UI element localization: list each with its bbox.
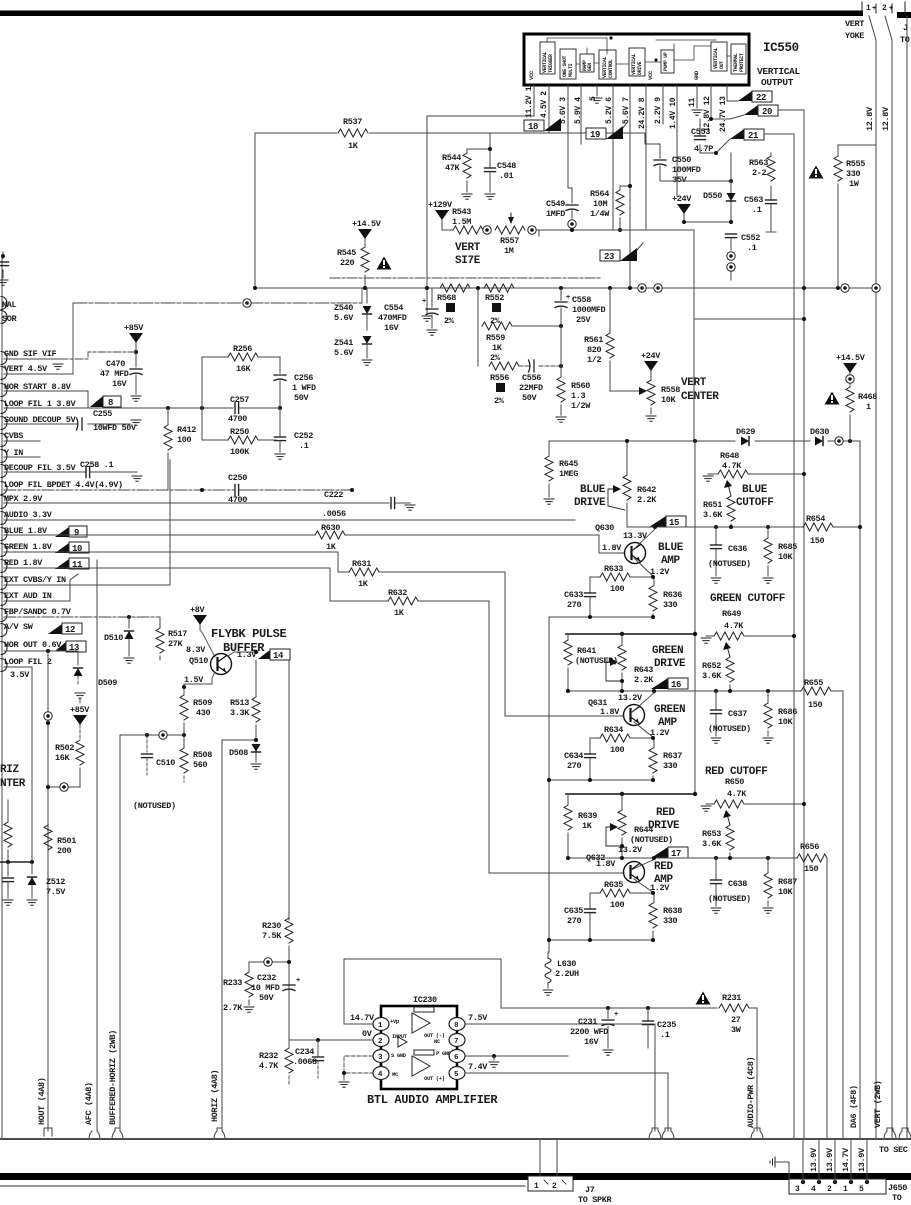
IC230 pin 6	[449, 1050, 465, 1063]
svg-text:5: 5	[859, 1185, 864, 1194]
svg-text:3: 3	[795, 1185, 800, 1194]
wire Q510 emitter to R509	[184, 672, 215, 695]
svg-text:OUT (+): OUT (+)	[424, 1075, 445, 1082]
svg-text:C563: C563	[744, 195, 763, 205]
svg-text:1 WFD: 1 WFD	[292, 383, 316, 393]
wire y230 cluster	[539, 229, 646, 231]
emitter wire Q631	[634, 722, 654, 748]
svg-text:10K: 10K	[661, 395, 677, 405]
svg-text:1000MFD: 1000MFD	[572, 305, 606, 315]
svg-text:R687: R687	[778, 877, 797, 887]
pin CVBS	[1, 434, 7, 447]
svg-text:+: +	[422, 298, 426, 306]
svg-text:330: 330	[846, 169, 861, 179]
svg-text:2%: 2%	[494, 396, 505, 406]
svg-text:Z512: Z512	[46, 877, 65, 887]
svg-text:GND: GND	[693, 70, 700, 80]
svg-text:7: 7	[454, 1038, 458, 1046]
resistor R556 2%	[477, 326, 479, 366]
svg-text:150: 150	[810, 536, 825, 546]
svg-text:R563: R563	[749, 158, 768, 168]
wiper arrow R649	[727, 646, 730, 657]
capacitor C470 47 MFD 16V	[130, 369, 142, 375]
svg-text:C255: C255	[93, 409, 112, 419]
svg-text:RED: RED	[656, 807, 676, 819]
wire bus y303 left	[73, 302, 362, 304]
resistor R654 150	[803, 523, 833, 531]
svg-text:R639: R639	[578, 811, 597, 821]
svg-text:1MEG: 1MEG	[559, 469, 578, 479]
resistor R230 7.5K	[285, 918, 293, 943]
svg-text:R555: R555	[846, 159, 865, 169]
resistor R632 1K	[388, 597, 418, 605]
svg-text:2-2: 2-2	[752, 168, 767, 178]
resistor R233 2.7K	[248, 962, 250, 972]
pin BLUE 1.8V	[1, 528, 7, 541]
capacitor C553	[699, 119, 701, 136]
svg-text:5.6V: 5.6V	[334, 348, 354, 358]
capacitor C554 470MFD 16V	[431, 288, 433, 307]
capacitor C635 270	[589, 893, 591, 908]
svg-text:C234: C234	[295, 1047, 314, 1057]
svg-text:12: 12	[65, 625, 75, 635]
svg-text:R250: R250	[230, 427, 249, 437]
svg-text:100: 100	[610, 745, 625, 755]
resistor R649 4.7K pot	[701, 638, 711, 643]
wire R631 to x505 down to green base	[379, 572, 624, 716]
IC230 supply loop wire	[344, 959, 501, 1024]
svg-text:+129V: +129V	[428, 200, 453, 210]
svg-text:D629: D629	[736, 427, 755, 437]
J650 ground bracket	[775, 1162, 789, 1179]
pin A/V SW	[1, 624, 7, 637]
pin DECOUP FIL 3.5V	[1, 465, 7, 478]
svg-text:1.5M: 1.5M	[452, 217, 471, 227]
capacitor C637 (NOTUSED)	[715, 691, 717, 709]
capacitor C549 1MFD	[571, 196, 573, 203]
pin VERT 4.5V	[1, 367, 7, 380]
inductor L630 2.2UH	[547, 952, 549, 958]
resistor R633 100	[590, 576, 600, 578]
svg-text:1.8V: 1.8V	[602, 543, 622, 553]
pin AUDIO 3.3V	[1, 512, 7, 525]
wire pin2 input y1040	[289, 1039, 374, 1041]
flag 20	[744, 105, 758, 115]
svg-text:16V: 16V	[112, 379, 128, 389]
svg-text:TO: TO	[900, 35, 910, 45]
svg-text:330: 330	[663, 916, 678, 926]
svg-text:R636: R636	[663, 590, 682, 600]
svg-text:10 MFD: 10 MFD	[251, 983, 280, 993]
resistor R651 3.6K	[727, 496, 735, 521]
svg-text:RED: RED	[654, 861, 674, 873]
flag 11	[55, 559, 69, 569]
svg-text:VCC: VCC	[528, 70, 535, 80]
pin RED 1.8V	[1, 560, 7, 573]
svg-text:21: 21	[748, 131, 759, 141]
capacitor C558 1000MFD 25V	[560, 288, 562, 300]
svg-text:R637: R637	[663, 751, 682, 761]
diode D550	[730, 181, 732, 222]
pin HOR START 8.8V	[1, 384, 7, 397]
pin LOOP FIL BPDET	[1, 482, 7, 495]
svg-text:2200 WFD: 2200 WFD	[570, 1027, 608, 1037]
wire R632 to x489 down to red base	[418, 601, 624, 873]
vertical x48 hor out	[47, 651, 49, 1131]
flag 22	[738, 91, 752, 101]
svg-text:R630: R630	[321, 523, 340, 533]
svg-text:D508: D508	[229, 748, 248, 758]
wire 24V node	[684, 221, 731, 223]
svg-text:16: 16	[671, 680, 681, 690]
svg-text:R649: R649	[722, 609, 741, 619]
resistor R645 1MEG	[548, 441, 550, 456]
svg-text:R537: R537	[343, 117, 362, 127]
svg-text:18: 18	[528, 122, 538, 132]
svg-text:13.9V: 13.9V	[857, 1147, 867, 1172]
svg-text:FLYBK PULSE: FLYBK PULSE	[211, 627, 287, 641]
svg-text:2.2K: 2.2K	[637, 495, 657, 505]
svg-text:(NOTUSED): (NOTUSED)	[133, 801, 176, 811]
flag 18	[524, 120, 544, 131]
svg-text:R648: R648	[720, 451, 739, 461]
svg-text:DRIVE: DRIVE	[654, 658, 686, 670]
svg-text:1W: 1W	[849, 179, 860, 189]
wire y1008 audio power	[501, 1007, 717, 1009]
capacitor C258 .1	[4, 471, 86, 473]
connector J ticks pins 1 2	[862, 2, 905, 14]
IC230 op-amp internals	[398, 1007, 434, 1076]
svg-text:IC550: IC550	[763, 41, 799, 55]
svg-text:D509: D509	[98, 678, 117, 688]
resistor R508 560	[183, 735, 185, 748]
svg-text:1/2: 1/2	[587, 355, 602, 365]
IC550 inner block VERTICAL OUT	[711, 42, 727, 71]
svg-text:R233: R233	[223, 978, 242, 988]
resistor left edge (horiz centering)	[7, 800, 9, 822]
svg-text:1.8V: 1.8V	[600, 707, 620, 717]
svg-text:4.5V 2: 4.5V 2	[540, 91, 549, 118]
resistor R648 4.7K pot	[703, 476, 713, 481]
right bus wire x=900	[906, 16, 908, 1139]
svg-text:16V: 16V	[384, 323, 400, 333]
svg-text:+: +	[614, 1011, 618, 1019]
svg-text:BLUE: BLUE	[742, 484, 768, 496]
svg-text:R513: R513	[230, 698, 249, 708]
left edge vertical	[1, 258, 3, 1139]
wire R502 bottom to x48	[48, 786, 80, 788]
transistor Q510	[211, 654, 232, 675]
wiper arrow R648	[728, 484, 731, 496]
svg-text:10M: 10M	[593, 199, 608, 209]
IC550 inner block VERTICAL DRIVE	[629, 48, 645, 76]
svg-text:EXT CVBS/Y IN: EXT CVBS/Y IN	[4, 575, 66, 585]
svg-text:C231: C231	[578, 1017, 597, 1027]
svg-text:+: +	[889, 5, 893, 13]
svg-text:3.5V: 3.5V	[10, 670, 30, 680]
svg-text:R556: R556	[490, 373, 509, 383]
svg-text:R517: R517	[168, 629, 187, 639]
svg-text:.1: .1	[299, 441, 309, 451]
svg-text:R635: R635	[604, 880, 623, 890]
wire red cutoff row y858	[568, 857, 797, 859]
svg-text:C633: C633	[564, 590, 583, 600]
svg-text:.01: .01	[499, 171, 514, 181]
bottom black bar	[0, 1173, 911, 1180]
capacitor C550 100MFD 35V	[659, 144, 661, 158]
svg-text:12.8V: 12.8V	[881, 106, 891, 131]
svg-text:R544: R544	[442, 153, 461, 163]
svg-text:2: 2	[552, 1182, 557, 1191]
svg-text:100: 100	[610, 900, 625, 910]
svg-text:35V: 35V	[672, 175, 688, 185]
zener Z512 7.5V	[31, 862, 33, 874]
pin HOR OUT 0.6V	[1, 642, 7, 655]
resistor R636 330	[649, 586, 657, 611]
svg-text:1K: 1K	[492, 343, 503, 353]
svg-text:220: 220	[340, 258, 355, 268]
flag 19	[586, 128, 606, 139]
svg-text:+24V: +24V	[672, 194, 692, 204]
svg-text:3.3K: 3.3K	[230, 708, 250, 718]
resistor R559 1K 2%	[477, 288, 479, 326]
svg-text:C634: C634	[564, 751, 583, 761]
wire Q510 collector to x289	[228, 652, 258, 656]
ground above +85V	[75, 693, 85, 698]
capacitor C255 10MFD 50V	[4, 423, 78, 425]
svg-text:27: 27	[731, 1015, 741, 1025]
svg-text:J650: J650	[888, 1183, 907, 1193]
svg-text:D510: D510	[104, 633, 123, 643]
capacitor C252 .1	[275, 437, 286, 441]
pot R558 10K with wiper arrow	[647, 380, 655, 405]
svg-text:DA6 (4F8): DA6 (4F8)	[849, 1085, 859, 1128]
wire vert yoke 1	[869, 16, 876, 284]
svg-text:R543: R543	[452, 207, 471, 217]
resistor R543 1.5M	[442, 229, 453, 231]
wire mpx y503	[4, 502, 389, 504]
svg-text:C232: C232	[257, 973, 276, 983]
resistor R652 3.6K	[726, 657, 734, 682]
resistor R631 1K	[349, 568, 379, 576]
warning triangle near R545	[377, 257, 392, 270]
svg-text:R643: R643	[634, 665, 653, 675]
pin5 gnd stub	[596, 85, 598, 96]
svg-text:CONTROL: CONTROL	[608, 59, 614, 78]
svg-text:(NOTUSED): (NOTUSED)	[708, 724, 751, 734]
svg-text:GND SIF VIF: GND SIF VIF	[4, 349, 57, 359]
svg-text:C638: C638	[728, 879, 747, 889]
svg-text:BUFFERED-HORIZ (2WB): BUFFERED-HORIZ (2WB)	[108, 1030, 118, 1125]
resistor R555 330 1W	[837, 145, 839, 156]
svg-text:C552: C552	[741, 233, 760, 243]
svg-text:13.2V: 13.2V	[618, 693, 643, 703]
flag 9	[55, 527, 69, 537]
IC550 inner wiring	[547, 38, 731, 64]
svg-text:NAL: NAL	[2, 300, 17, 310]
resistor R412 100	[167, 408, 169, 425]
svg-text:C558: C558	[572, 295, 591, 305]
svg-text:DRIVE: DRIVE	[574, 497, 606, 509]
flag 14	[258, 650, 270, 659]
green cutoff/collector row y691	[568, 690, 686, 692]
diode D509 on x78	[77, 651, 79, 665]
long vertical x427	[426, 116, 428, 313]
svg-text:.1: .1	[660, 1030, 670, 1040]
vertical x120	[119, 735, 121, 1131]
svg-text:R561: R561	[584, 335, 603, 345]
wire hor out y651	[4, 650, 78, 652]
resistor R502 16K	[76, 740, 84, 765]
pin SOR	[1, 311, 7, 324]
svg-text:R230: R230	[262, 921, 281, 931]
svg-text:RED 1.8V: RED 1.8V	[4, 558, 43, 568]
svg-text:2.2UH: 2.2UH	[555, 969, 579, 979]
pin LOOP FIL 2 3.5V	[1, 659, 7, 672]
svg-text:270: 270	[567, 600, 582, 610]
svg-text:R560: R560	[571, 381, 590, 391]
diode D630	[815, 437, 823, 446]
svg-text:GREEN CUTOFF: GREEN CUTOFF	[710, 593, 785, 605]
svg-text:C553: C553	[691, 127, 710, 137]
svg-text:R412: R412	[177, 425, 196, 435]
capacitor C231 2200 MFD 16V	[607, 1008, 609, 1018]
svg-text:C510: C510	[156, 758, 175, 768]
vertical x97	[96, 560, 98, 1131]
resistor R653 3.6K	[726, 825, 734, 850]
pin NAL	[1, 297, 7, 310]
wire blue emitter row y617	[549, 616, 653, 618]
resistor R563 2-2	[770, 153, 772, 156]
svg-text:10WFD 50V: 10WFD 50V	[93, 423, 137, 433]
capacitor C563 .1	[770, 186, 772, 199]
resistor R250 100K	[201, 408, 203, 440]
svg-text:R642: R642	[637, 485, 656, 495]
svg-text:GREEN: GREEN	[654, 704, 685, 716]
capacitor C548 .01	[485, 168, 496, 172]
svg-text:IC230: IC230	[413, 995, 437, 1005]
svg-text:2.2K: 2.2K	[634, 675, 654, 685]
pin GND SIF VIF	[1, 352, 7, 365]
wire R630 to Q630 base	[345, 535, 624, 553]
svg-text:.0056: .0056	[322, 509, 346, 519]
svg-text:C256: C256	[294, 373, 313, 383]
resistor R468 1	[849, 383, 851, 387]
vertical x32 loop fil 2	[31, 667, 33, 862]
svg-text:C554: C554	[384, 303, 403, 313]
wire R513 bottom to x222	[222, 740, 256, 1131]
warning triangle near R468	[825, 392, 840, 405]
svg-text:C635: C635	[564, 906, 583, 916]
svg-text:R651: R651	[703, 500, 722, 510]
svg-text:R502: R502	[55, 743, 74, 753]
svg-text:R645: R645	[559, 459, 578, 469]
svg-text:10K: 10K	[778, 717, 794, 727]
diode D629	[741, 437, 749, 446]
svg-text:16V: 16V	[584, 1037, 600, 1047]
svg-text:7.4V: 7.4V	[468, 1062, 488, 1072]
svg-text:C550: C550	[672, 155, 691, 165]
svg-text:200: 200	[57, 846, 72, 856]
flag 17	[651, 847, 668, 858]
svg-text:INPUT: INPUT	[392, 1033, 408, 1040]
zener Z541 5.6V	[363, 336, 372, 344]
wire red emitter row y940	[549, 939, 653, 941]
svg-text:EXT AUD IN: EXT AUD IN	[4, 591, 52, 601]
resistor R256 16K	[201, 357, 203, 408]
svg-text:25V: 25V	[576, 315, 592, 325]
svg-text:YOKE: YOKE	[845, 31, 864, 41]
svg-text:2%: 2%	[444, 316, 455, 326]
svg-text:C258 .1: C258 .1	[80, 460, 114, 470]
wire audio y520	[4, 519, 575, 521]
capacitor C638 (NOTUSED)	[715, 858, 717, 879]
svg-text:150: 150	[808, 700, 823, 710]
wire y962 to R233	[249, 961, 289, 963]
svg-text:CVBS: CVBS	[4, 431, 23, 441]
svg-text:PUMP UP: PUMP UP	[663, 52, 669, 71]
svg-text:14.7V: 14.7V	[350, 1013, 375, 1023]
svg-text:R552: R552	[485, 293, 504, 303]
resistor R509 430	[180, 695, 188, 720]
svg-text:5.9V 4: 5.9V 4	[574, 97, 583, 124]
supply feed x686	[694, 441, 696, 794]
svg-text:4.7K: 4.7K	[724, 621, 744, 631]
IC230 pin 3	[373, 1050, 389, 1063]
svg-text:2.2V 9: 2.2V 9	[654, 97, 663, 124]
emitter wire Q632	[634, 879, 654, 903]
wire red y568 step to R632	[4, 568, 388, 601]
svg-text:1: 1	[534, 1182, 539, 1191]
resistor R638 330	[649, 903, 657, 928]
svg-text:4.7P: 4.7P	[694, 144, 713, 154]
node socket on yoke wire 1	[872, 284, 880, 292]
svg-text:R656: R656	[800, 842, 819, 852]
wire gnd sif to C470 node	[60, 352, 136, 359]
wire bus y133	[255, 132, 645, 134]
svg-text:Q510: Q510	[189, 656, 208, 666]
svg-text:1.5V: 1.5V	[184, 675, 204, 685]
svg-text:3.6K: 3.6K	[702, 839, 722, 849]
top black bar	[0, 11, 863, 17]
svg-text:C257: C257	[230, 395, 249, 405]
svg-text:C636: C636	[728, 544, 747, 554]
svg-text:1K: 1K	[582, 821, 593, 831]
svg-text:9: 9	[74, 528, 79, 538]
svg-text:R559: R559	[486, 333, 505, 343]
flag 13	[55, 642, 66, 651]
svg-text:PROTECT: PROTECT	[739, 53, 745, 72]
pin MPX 2.9V	[1, 496, 7, 509]
op IC550 outline	[524, 34, 749, 85]
pot R644 (NOTUSED)	[621, 794, 623, 810]
svg-text:22: 22	[756, 93, 766, 103]
svg-text:VERTICAL: VERTICAL	[757, 66, 800, 77]
svg-text:R558: R558	[661, 385, 680, 395]
svg-text:+8V: +8V	[190, 605, 206, 615]
svg-text:R638: R638	[663, 906, 682, 916]
IC550 inner block VERTICAL CONTROL	[599, 50, 616, 79]
svg-text:+Vp: +Vp	[390, 1018, 400, 1025]
svg-text:13.3V: 13.3V	[623, 531, 648, 541]
svg-text:+24V: +24V	[641, 351, 661, 361]
connector J650	[789, 1179, 886, 1194]
svg-text:R652: R652	[702, 661, 721, 671]
svg-text:FBP/SANDC 0.7V: FBP/SANDC 0.7V	[4, 607, 72, 617]
pot R643 2.2K	[621, 634, 623, 645]
svg-text:.1: .1	[747, 243, 757, 253]
svg-text:8.3V: 8.3V	[186, 645, 206, 655]
